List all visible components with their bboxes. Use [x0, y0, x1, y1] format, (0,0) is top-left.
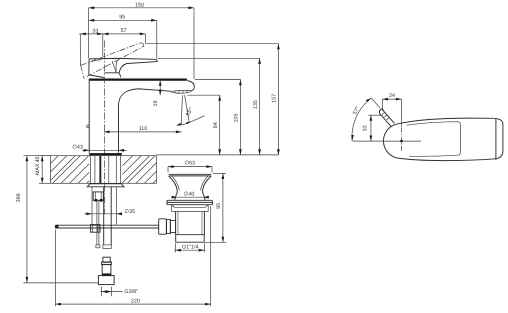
svg-text:24: 24	[389, 93, 395, 99]
svg-text:150: 150	[135, 2, 144, 8]
faucet body top bold line	[89, 78, 187, 80]
svg-text:33: 33	[363, 125, 369, 131]
drain locknut	[172, 205, 209, 212]
svg-text:18: 18	[153, 101, 159, 107]
pop-up rod pair	[96, 200, 98, 245]
dimension 33	[79, 28, 145, 35]
dimension 110	[104, 126, 182, 133]
dimension 95 drain	[205, 173, 226, 242]
horizontal pop-up rod	[57, 225, 159, 228]
top view center cross	[353, 128, 421, 153]
extension line x156.8	[156, 20, 158, 58]
top view inner inset	[407, 122, 461, 157]
drain flange	[167, 200, 213, 204]
svg-text:G1"1/4: G1"1/4	[182, 244, 199, 250]
spout underside corner	[119, 89, 171, 106]
dimension 399	[16, 156, 98, 283]
drain funnel	[169, 174, 212, 200]
rod end cap	[96, 245, 100, 248]
countertop slab	[50, 156, 156, 186]
svg-text:57: 57	[121, 28, 127, 34]
rod left cap	[55, 225, 59, 229]
extension line y79.6 to 105	[195, 79, 241, 81]
tube end cap	[103, 245, 111, 249]
svg-text:105: 105	[234, 114, 240, 123]
svg-text:110: 110	[139, 126, 148, 132]
svg-text:95: 95	[216, 203, 222, 209]
faucet centerline	[104, 41, 106, 215]
extension line x102.8	[102, 34, 104, 56]
dimension 33 top view	[363, 115, 383, 141]
dimension 57	[103, 28, 146, 35]
dimension 57 degrees arc	[351, 98, 371, 141]
mounting nut block	[93, 192, 103, 202]
dimension 157	[272, 44, 280, 155]
top view end inner line	[495, 118, 497, 159]
svg-text:∅40: ∅40	[184, 191, 195, 197]
dimension 135	[253, 58, 261, 155]
dimension 105	[234, 80, 242, 155]
svg-text:84: 84	[213, 122, 219, 128]
dimension 150	[89, 2, 194, 9]
fitting dark band	[102, 273, 111, 275]
water stream lines	[181, 95, 182, 124]
dimension 220	[55, 206, 210, 306]
extension line x145.4	[144, 34, 146, 43]
extension line x88.6	[88, 8, 90, 58]
dimension G1 1/4	[174, 243, 205, 253]
extension line y43.7 to 157	[146, 43, 279, 45]
svg-text:157: 157	[272, 94, 278, 103]
top view lever rod	[371, 98, 394, 126]
clevis block on rod	[91, 225, 100, 233]
faucet base bold band	[89, 153, 122, 155]
svg-text:∅35: ∅35	[124, 209, 135, 215]
shank outer lines below flange	[91, 187, 93, 225]
svg-text:220: 220	[131, 298, 140, 304]
handle inner curves	[91, 60, 117, 73]
drain dimension diameter 40	[172, 191, 209, 198]
extension line x80.3	[79, 34, 81, 65]
MAX 40 dimension	[35, 156, 51, 184]
svg-text:95: 95	[119, 14, 125, 20]
dimension 24	[382, 93, 401, 127]
body column left edge	[88, 79, 90, 153]
drain body	[176, 212, 205, 235]
hose dark band in counter	[99, 156, 101, 184]
dimension 18	[153, 80, 162, 106]
handle lever side view	[89, 58, 157, 77]
horseshoe washer flange	[87, 184, 124, 187]
svg-text:∅43: ∅43	[72, 144, 83, 150]
hole wall lines in counter	[90, 156, 120, 184]
supply tube pair	[103, 187, 105, 245]
drain dimension diameter 63	[168, 161, 212, 173]
top view handle outline	[383, 118, 502, 160]
angle arc 5deg	[176, 106, 204, 126]
svg-text:399: 399	[16, 193, 22, 202]
aerator	[171, 90, 192, 93]
svg-text:∅63: ∅63	[184, 161, 195, 167]
bottom fitting g3/8	[98, 257, 114, 284]
dimension 95 top	[89, 14, 157, 21]
extension line counter top left	[23, 155, 50, 157]
clip detail on column	[87, 125, 90, 128]
dimension G3/8	[101, 287, 138, 297]
extension line x194 spout tip	[193, 8, 195, 79]
body column right edge	[118, 106, 120, 153]
phantom raised handle	[81, 43, 144, 79]
svg-text:MAX 40: MAX 40	[35, 156, 41, 175]
drain tailpiece	[176, 235, 205, 243]
extension line y95.2 to 84	[188, 94, 221, 96]
svg-text:135: 135	[253, 100, 259, 109]
dimension 84	[213, 95, 221, 155]
drain side port	[159, 219, 176, 234]
extension line counter top right	[157, 154, 279, 156]
svg-text:33: 33	[92, 28, 98, 34]
svg-text:G3/8": G3/8"	[124, 289, 138, 295]
dimension diameter 43	[72, 144, 127, 151]
extension line y58.3 to 135	[158, 57, 261, 59]
dimension diameter 35	[84, 209, 135, 215]
spout tip	[188, 81, 195, 91]
